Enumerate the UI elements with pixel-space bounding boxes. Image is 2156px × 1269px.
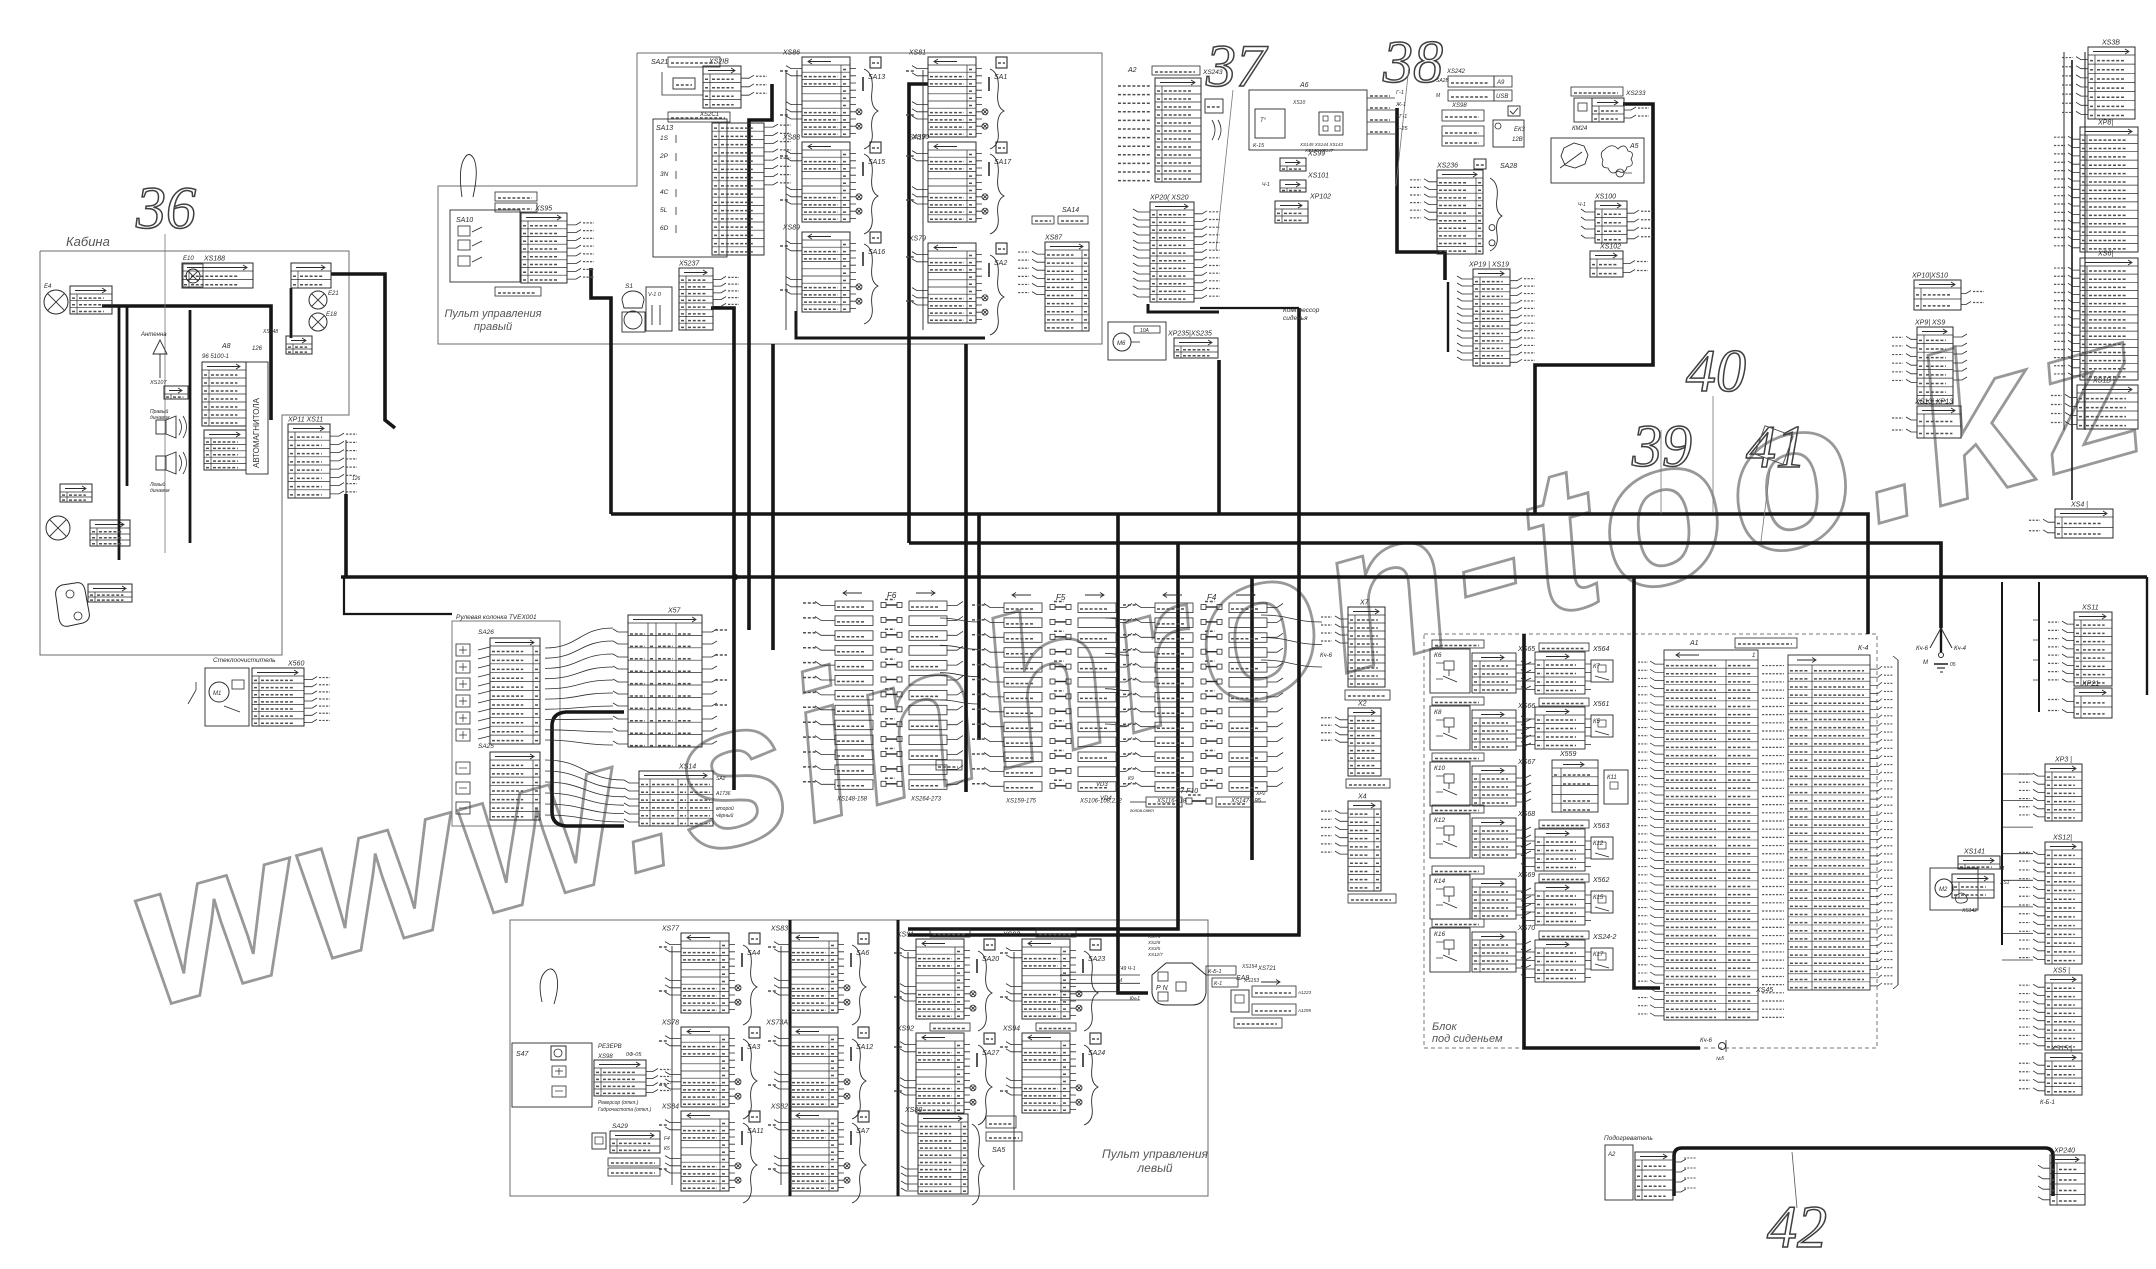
- svg-text:VD3: VD3: [1096, 782, 1108, 788]
- svg-text:X7: X7: [1359, 600, 1370, 607]
- svg-text:XS159-175: XS159-175: [1005, 799, 1037, 805]
- svg-text:XS66: XS66: [1517, 703, 1535, 710]
- svg-text:XS45: XS45: [1755, 987, 1773, 994]
- svg-text:10А: 10А: [1140, 328, 1150, 334]
- heater bus wire: [1674, 1148, 2053, 1196]
- svg-text:SA23: SA23: [1088, 956, 1105, 963]
- svg-text:X564: X564: [1592, 646, 1609, 653]
- svg-text:правый: правый: [474, 321, 512, 333]
- svg-text:XS264-273: XS264-273: [910, 797, 942, 803]
- connector XS99: [1280, 158, 1306, 171]
- wire bundle cabin XS11 out: [343, 431, 345, 433]
- connector XS2C1 rows: [712, 123, 764, 255]
- connector XP19/XS19: [1473, 269, 1510, 366]
- svg-text:X560: X560: [287, 661, 304, 668]
- svg-text:А1223: А1223: [1297, 990, 1312, 995]
- svg-text:XS84: XS84: [661, 1104, 679, 1111]
- connector XS21B: [703, 66, 741, 108]
- cabin frame box: [40, 251, 349, 655]
- cabin thick wires: [102, 306, 271, 420]
- seat block frame (dashed): [1424, 634, 1877, 1048]
- connector cabin small2: [60, 484, 92, 502]
- svg-text:К8: К8: [1434, 709, 1442, 716]
- connector XP3: [2045, 764, 2082, 821]
- svg-text:05: 05: [1950, 662, 1956, 668]
- svg-text:SA25: SA25: [478, 743, 494, 750]
- svg-text:Стеклоочиститель: Стеклоочиститель: [213, 657, 276, 664]
- connector XP21: [2074, 688, 2112, 718]
- wire to left panel top a: [908, 543, 1178, 929]
- svg-text:38: 38: [1382, 29, 1443, 95]
- speaker left: [156, 456, 166, 470]
- switch XS78 / SA3: [681, 1027, 729, 1107]
- svg-text:XS10: XS10: [1292, 100, 1305, 106]
- svg-text:ХР10|XS10: ХР10|XS10: [1911, 273, 1948, 280]
- wire XP20 link: [1200, 307, 1299, 309]
- svg-text:1: 1: [1752, 653, 1755, 659]
- svg-text:XS91: XS91: [896, 932, 914, 939]
- steering U wire: [552, 712, 624, 826]
- svg-text:XS148-158: XS148-158: [836, 797, 868, 803]
- svg-text:Левый: Левый: [149, 481, 165, 488]
- svg-text:К-1: К-1: [1214, 981, 1222, 987]
- K-4 harness bracket: [1897, 660, 1899, 985]
- svg-text:К10: К10: [1434, 765, 1445, 772]
- svg-text:Кч-6: Кч-6: [1700, 1038, 1713, 1044]
- svg-text:А9: А9: [1496, 80, 1505, 86]
- switch XS94 / SA24: [1036, 1023, 1076, 1031]
- svg-text:М2: М2: [1939, 887, 1948, 893]
- svg-text:SA7: SA7: [856, 1128, 870, 1135]
- connector XS12: [2045, 842, 2082, 964]
- svg-text:XS98: XS98: [1451, 103, 1467, 109]
- svg-text:XS86: XS86: [782, 50, 800, 57]
- svg-text:Ч-1: Ч-1: [1262, 182, 1270, 188]
- svg-text:динамик: динамик: [150, 488, 170, 494]
- svg-text:SA27: SA27: [982, 1050, 1000, 1057]
- connector XS11: [2074, 612, 2112, 686]
- svg-text:Кч-1: Кч-1: [1130, 996, 1140, 1002]
- svg-text:А1: А1: [1689, 640, 1699, 647]
- connector XP20/XS20: [1150, 202, 1194, 302]
- diamond mark 41: [1755, 426, 1793, 464]
- single wire box О-05: [936, 760, 962, 770]
- wire down to SA8 area: [1118, 514, 1148, 993]
- svg-text:К12: К12: [1434, 817, 1445, 824]
- svg-text:XS98: XS98: [597, 1054, 613, 1060]
- svg-text:XS92: XS92: [896, 1026, 914, 1033]
- svg-text:126: 126: [252, 346, 263, 352]
- connector XS24-2 / relay K17: [1539, 931, 1589, 939]
- svg-text:Антенна: Антенна: [140, 332, 167, 338]
- svg-text:А1736: А1736: [715, 791, 731, 797]
- lamp E21: [309, 291, 327, 309]
- relay K12 / connector XS68: [1432, 805, 1484, 813]
- B1 box: [1205, 99, 1223, 113]
- svg-text:SA11: SA11: [747, 1128, 764, 1135]
- link stubs right column to collector a: [2033, 620, 2039, 680]
- svg-text:№5: №5: [1716, 1056, 1724, 1062]
- switch XS86 / SA13: [802, 57, 850, 137]
- leader 42 line: [1792, 1152, 1797, 1208]
- link stubs right column to collector b: [2002, 774, 2033, 960]
- wire XP19 left: [1447, 282, 1449, 352]
- svg-text:Х5237: Х5237: [678, 261, 700, 268]
- wire SA21 down: [749, 84, 772, 630]
- connector XS141: [1958, 856, 2000, 869]
- collector wires right panel columns: [796, 70, 798, 330]
- connector at E4: [70, 286, 112, 314]
- svg-text:XS93: XS93: [1002, 932, 1020, 939]
- svg-text:S1: S1: [625, 283, 633, 290]
- switch XS82 / SA7: [790, 1111, 838, 1191]
- svg-text:96 5100-1: 96 5100-1: [202, 354, 229, 360]
- connector XS95: [521, 213, 567, 283]
- svg-text:голов.свет: голов.свет: [1130, 808, 1154, 813]
- steering column frame: [452, 621, 560, 826]
- wire XS81 column down: [909, 84, 928, 543]
- svg-text:12В: 12В: [1512, 137, 1523, 143]
- unit A6: [1249, 90, 1367, 150]
- svg-text:левый: левый: [1136, 1161, 1173, 1175]
- svg-text:1S: 1S: [660, 135, 669, 142]
- wire bundle SA25 to XS14: [545, 760, 624, 822]
- svg-text:SA3: SA3: [747, 1044, 760, 1051]
- connector XS5: [2045, 975, 2082, 1050]
- svg-text:Кч-6: Кч-6: [1320, 653, 1333, 659]
- switch XS92 / SA27: [930, 1023, 970, 1031]
- joystick lever: [460, 155, 476, 198]
- leader 39: [1660, 430, 1662, 514]
- lamp cabin lower: [46, 516, 70, 540]
- connector XP8: [2080, 127, 2138, 252]
- right column wire b: [2146, 577, 2148, 695]
- switch XS79 / SA2: [928, 243, 976, 323]
- svg-text:XS24-2: XS24-2: [1592, 934, 1616, 941]
- svg-text:SA21: SA21: [651, 59, 668, 66]
- svg-text:SA26: SA26: [478, 629, 494, 636]
- svg-text:SA29: SA29: [612, 1123, 628, 1130]
- connector XS14: [639, 771, 713, 826]
- connector XS64 / relay K7: [1539, 643, 1589, 651]
- svg-text:XS1В |: XS1В |: [2092, 378, 2115, 385]
- handset: [56, 583, 90, 627]
- svg-text:SA1: SA1: [994, 74, 1007, 81]
- svg-text:XS73А: XS73А: [765, 1020, 788, 1027]
- svg-text:К-4: К-4: [1858, 645, 1868, 652]
- svg-text:Кч-6: Кч-6: [1916, 646, 1929, 652]
- wire compressor down: [1217, 360, 1221, 514]
- relay K16 / connector XS70: [1432, 919, 1484, 927]
- svg-text:К-15: К-15: [1253, 143, 1265, 149]
- svg-text:XS236: XS236: [1436, 163, 1458, 170]
- svg-text:XS2IB: XS2IB: [708, 59, 729, 66]
- connector XS233 KM24: [1571, 87, 1623, 96]
- svg-text:36: 36: [135, 175, 196, 241]
- svg-text:К11: К11: [1607, 775, 1617, 781]
- svg-text:126: 126: [352, 476, 361, 482]
- svg-text:0Ф-05: 0Ф-05: [626, 1052, 642, 1058]
- relay K14 / connector XS69: [1432, 866, 1484, 874]
- svg-text:SA4: SA4: [747, 950, 760, 957]
- svg-text:XS81: XS81: [908, 50, 926, 57]
- svg-text:XS77: XS77: [661, 926, 680, 933]
- svg-text:39: 39: [1631, 413, 1692, 479]
- svg-text:ХР102: ХР102: [1309, 194, 1331, 201]
- svg-text:К5: К5: [664, 1146, 670, 1152]
- svg-text:USB: USB: [1496, 94, 1508, 100]
- svg-text:Компрессор: Компрессор: [1283, 307, 1320, 314]
- svg-text:Г49 Ч-1: Г49 Ч-1: [1118, 966, 1136, 972]
- svg-text:XS82: XS82: [770, 1104, 788, 1111]
- svg-text:Ж-1: Ж-1: [1395, 102, 1406, 108]
- svg-text:М: М: [1923, 660, 1928, 666]
- wire to left panel top b: [908, 308, 1299, 935]
- main bus H3: [341, 575, 2147, 579]
- wire right-panel to H1: [591, 268, 611, 514]
- switch SA13 combine-mode selector: [653, 119, 727, 257]
- switch XS236 / SA28: [1474, 159, 1486, 169]
- svg-text:Пульт управления: Пульт управления: [444, 308, 541, 320]
- connector XS188 with E10: [182, 263, 253, 288]
- svg-text:ХР8|: ХР8|: [2097, 120, 2113, 127]
- left panel vertical bus b: [897, 920, 900, 1196]
- svg-text:X2: X2: [1357, 701, 1367, 708]
- svg-text:ХР235|XS235: ХР235|XS235: [1167, 331, 1212, 338]
- svg-text:SA2: SA2: [716, 776, 726, 782]
- svg-text:X563: X563: [1592, 823, 1609, 830]
- svg-text:А6: А6: [1299, 82, 1309, 89]
- svg-text:XS13| ХР13: XS13| ХР13: [1914, 399, 1953, 406]
- svg-text:XS87: XS87: [1044, 235, 1063, 242]
- svg-text:XS3В: XS3В: [2101, 40, 2120, 47]
- left panel vertical bus a: [789, 920, 792, 1196]
- svg-text:XS142: XS142: [1961, 908, 1977, 914]
- right control panel frame: [438, 53, 1102, 344]
- leader 38: [1396, 66, 1409, 186]
- connector X5237: [679, 268, 713, 330]
- svg-text:SA10: SA10: [456, 217, 473, 224]
- connector XS6: [2080, 258, 2138, 380]
- wire compressor link: [1148, 304, 1219, 312]
- connector at lamp lower: [90, 520, 130, 546]
- wire panel bottom down: [771, 344, 775, 650]
- svg-text:А1295: А1295: [1297, 1008, 1312, 1013]
- svg-text:XS83: XS83: [770, 926, 788, 933]
- svg-text:сиденья: сиденья: [1283, 314, 1308, 322]
- wire seat-block inner: [1524, 634, 1700, 1048]
- main bus H2: [909, 543, 1941, 628]
- svg-text:Гидрочастота (откл.): Гидрочастота (откл.): [598, 1107, 652, 1113]
- connector handset: [88, 584, 132, 602]
- connector XP9/XS9: [1917, 327, 1953, 404]
- cabin feed wire: [345, 440, 347, 494]
- svg-text:XS65: XS65: [1517, 646, 1535, 653]
- switch XS83 / SA6: [790, 933, 838, 1013]
- relay K6 / connector XS65: [1432, 640, 1484, 648]
- svg-text:SA2: SA2: [994, 260, 1007, 267]
- main bus H1: [611, 514, 1868, 634]
- svg-text:А2: А2: [1607, 1152, 1616, 1158]
- svg-text:XS721: XS721: [1257, 966, 1276, 972]
- svg-text:XS95: XS95: [534, 206, 552, 213]
- wire bundle steering to X57: [545, 628, 613, 745]
- svg-text:XS243: XS243: [1202, 69, 1223, 76]
- lamp E18: [309, 313, 327, 331]
- svg-text:ХР21: ХР21: [2081, 681, 2099, 688]
- right panel inner bus: [796, 311, 985, 338]
- svg-text:XS12/7: XS12/7: [1147, 952, 1163, 957]
- svg-text:РЕЗЕРВ: РЕЗЕРВ: [598, 1044, 622, 1050]
- svg-text:X559: X559: [1559, 751, 1576, 758]
- switch XS90 / SA17: [928, 142, 976, 222]
- svg-text:XS69: XS69: [1517, 872, 1535, 879]
- switch V-1 0: [646, 287, 672, 331]
- connector XS3B: [2088, 47, 2135, 119]
- svg-text:SA12: SA12: [856, 1044, 873, 1051]
- svg-text:XS242: XS242: [1446, 69, 1466, 75]
- wire KM24 down to H1: [1535, 104, 1653, 514]
- svg-text:XS94: XS94: [1002, 1026, 1020, 1033]
- svg-text:F5: F5: [1056, 593, 1066, 602]
- switch XS84 / SA11: [681, 1111, 729, 1191]
- svg-text:Ч-1: Ч-1: [1578, 202, 1586, 208]
- connector XS15: [2045, 1053, 2082, 1095]
- svg-text:XS99: XS99: [1307, 151, 1325, 158]
- switch SA8 gear selector: [1152, 963, 1206, 1005]
- relay K8 / connector XS66: [1432, 697, 1484, 705]
- svg-text:F4: F4: [1207, 593, 1217, 602]
- svg-text:V-1 0: V-1 0: [648, 292, 662, 298]
- svg-text:X57: X57: [667, 608, 682, 615]
- leader 37: [1216, 90, 1233, 250]
- svg-text:К16: К16: [1434, 931, 1445, 938]
- connector XS102: [1590, 251, 1623, 277]
- switch XS93 / SA23: [1036, 929, 1076, 937]
- wire seat-block left column: [1634, 577, 1660, 988]
- svg-text:X561: X561: [1592, 701, 1609, 708]
- svg-text:ХР19 | XS19: ХР19 | XS19: [1468, 262, 1509, 269]
- leader 41: [1761, 470, 1770, 541]
- collector wires left panel columns: [671, 946, 673, 1185]
- svg-text:XS2C1: XS2C1: [699, 112, 719, 118]
- svg-text:Е18: Е18: [326, 312, 337, 318]
- connector XS4: [2055, 509, 2113, 538]
- svg-text:ХР9| XS9: ХР9| XS9: [1914, 320, 1945, 327]
- ground symbol M: [1934, 663, 1948, 665]
- svg-text:41: 41: [1746, 414, 1806, 480]
- right column wire c: [2001, 582, 2003, 945]
- svg-text:XS12|: XS12|: [2052, 835, 2072, 842]
- connector XS18: [2077, 385, 2138, 429]
- connector X2: [1348, 708, 1381, 776]
- svg-text:Е21: Е21: [328, 291, 339, 297]
- wire down f-block b: [977, 514, 981, 740]
- svg-text:SA6: SA6: [856, 950, 869, 957]
- switch XS73A / SA12: [790, 1027, 838, 1107]
- svg-text:XS14: XS14: [678, 764, 696, 771]
- svg-text:XS3/5: XS3/5: [1147, 946, 1161, 951]
- antenna: [153, 340, 167, 378]
- connector K4 rows: [291, 263, 331, 288]
- svg-text:XS154: XS154: [1241, 964, 1257, 970]
- connector X4: [1348, 801, 1381, 891]
- svg-text:SA16: SA16: [868, 249, 885, 256]
- svg-text:F4: F4: [664, 1136, 670, 1142]
- wire bundle F4 right: [1261, 615, 1322, 667]
- svg-text:XS70: XS70: [1517, 925, 1535, 932]
- svg-text:XS100: XS100: [1594, 194, 1616, 201]
- switch XS77 / SA4: [681, 933, 729, 1013]
- cabin feed wire lower: [344, 577, 452, 614]
- svg-text:Г-1: Г-1: [1396, 90, 1404, 96]
- svg-text:SA20: SA20: [982, 956, 999, 963]
- svg-text:А2: А2: [1127, 67, 1137, 74]
- leader 40: [1712, 396, 1714, 512]
- svg-text:Рулевая колонка TVEX001: Рулевая колонка TVEX001: [456, 614, 537, 621]
- wire bundle SA8 left: [1060, 975, 1140, 1000]
- speaker connector rows: [204, 430, 246, 470]
- switch SA21 assembly: [668, 57, 720, 67]
- connector M2 rows: [1952, 874, 1994, 898]
- svg-text:АВТОМАГНИТОЛА: АВТОМАГНИТОЛА: [252, 397, 261, 468]
- svg-text:КМ24: КМ24: [1572, 126, 1588, 132]
- svg-text:динамик: динамик: [150, 415, 170, 421]
- wire X5237 down: [711, 308, 734, 790]
- leader 36: [164, 234, 166, 553]
- svg-text:ХР240: ХР240: [2053, 1148, 2075, 1155]
- switch XS91 / SA20: [930, 929, 970, 937]
- svg-text:XS7/4: XS7/4: [1147, 934, 1161, 939]
- unit EK3 12V: [1493, 120, 1524, 147]
- right column collector wire: [2063, 52, 2065, 430]
- connector XS101: [1280, 180, 1306, 192]
- connector XS100: [1595, 201, 1627, 243]
- connector X7: [1348, 607, 1385, 687]
- svg-text:Блок: Блок: [1432, 1021, 1457, 1033]
- wire A6 down: [1397, 108, 1445, 280]
- svg-text:XS141: XS141: [1963, 849, 1985, 856]
- switch XS89 / SA16: [802, 232, 850, 312]
- svg-text:SA28: SA28: [1500, 163, 1517, 170]
- svg-text:второй: второй: [716, 805, 734, 812]
- svg-text:Пульт управления: Пульт управления: [1102, 1147, 1209, 1161]
- svg-text:К9: К9: [1128, 776, 1134, 782]
- svg-text:SA15: SA15: [868, 159, 885, 166]
- connector XS62 / relay K15: [1539, 874, 1589, 882]
- svg-text:К14: К14: [1434, 878, 1445, 885]
- svg-text:Реверсор (откл.): Реверсор (откл.): [598, 1100, 639, 1106]
- svg-text:4C: 4C: [660, 189, 669, 196]
- right column wire d: [2038, 582, 2040, 712]
- switch XS81 / SA1: [928, 57, 976, 137]
- svg-text:F6: F6: [887, 591, 897, 600]
- svg-text:SA13: SA13: [868, 74, 885, 81]
- svg-text:3N: 3N: [660, 171, 669, 178]
- svg-text:ХР3 |: ХР3 |: [2054, 757, 2072, 764]
- svg-text:XS67: XS67: [1517, 759, 1536, 766]
- svg-text:37: 37: [1205, 33, 1269, 99]
- controller A1 right connector rows: [1788, 655, 1870, 990]
- svg-text:К6: К6: [1434, 652, 1442, 659]
- svg-text:SA2В: SA2В: [1436, 78, 1449, 84]
- svg-text:К-Б-1: К-Б-1: [1208, 969, 1222, 975]
- svg-text:Е4: Е4: [44, 284, 52, 290]
- svg-text:Кабина: Кабина: [66, 234, 110, 249]
- svg-text:XS78: XS78: [661, 1020, 679, 1027]
- connector XP240: [2050, 1155, 2085, 1205]
- wire bundle F6 to F5: [940, 618, 978, 704]
